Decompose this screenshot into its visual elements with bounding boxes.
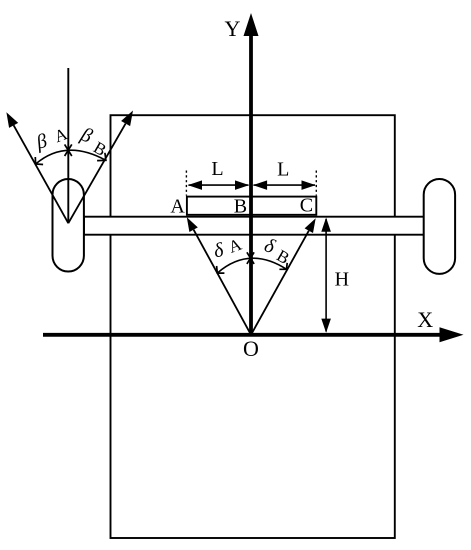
cross tick where beta arcs meet kingpin line — [65, 144, 72, 156]
left L dimension arrow — [188, 180, 249, 190]
right steering direction arrow — [68, 111, 133, 224]
Y axis — [244, 13, 259, 335]
label beta B — [77, 123, 110, 160]
front axle bar — [84, 217, 424, 235]
right wheel — [424, 179, 455, 274]
delta angle arc — [217, 258, 288, 273]
tie rod rectangle A-B-C — [187, 197, 316, 215]
svg-text:A: A — [226, 234, 245, 256]
dotted extension line at C — [315, 171, 317, 196]
svg-text:β: β — [33, 130, 49, 154]
vehicle body rectangle — [111, 115, 395, 538]
svg-text:δ: δ — [212, 239, 226, 263]
svg-text:L: L — [277, 159, 289, 181]
dotted extension line at A — [185, 171, 187, 196]
svg-text:H: H — [335, 269, 349, 291]
svg-text:δ: δ — [261, 234, 278, 258]
svg-text:Y: Y — [224, 16, 240, 41]
kingpin vertical reference line — [67, 68, 69, 223]
H dimension arrow — [321, 218, 331, 333]
arrow line O to C — [251, 218, 316, 334]
left wheel — [53, 179, 84, 272]
svg-text:X: X — [417, 307, 433, 332]
svg-text:B: B — [234, 195, 247, 217]
svg-text:β: β — [77, 123, 95, 148]
arrow line O to A — [187, 217, 251, 335]
label beta A — [33, 124, 70, 154]
svg-text:C: C — [300, 195, 313, 217]
svg-text:L: L — [211, 158, 223, 180]
right L dimension arrow — [253, 180, 316, 190]
X axis — [43, 327, 464, 342]
cross tick where delta arcs meet Y axis — [247, 252, 254, 264]
beta angle arc — [35, 150, 106, 164]
svg-text:O: O — [243, 336, 259, 361]
left steering direction arrow — [6, 112, 68, 223]
svg-text:A: A — [170, 196, 185, 218]
label delta B — [261, 234, 292, 268]
label delta A — [212, 234, 245, 262]
